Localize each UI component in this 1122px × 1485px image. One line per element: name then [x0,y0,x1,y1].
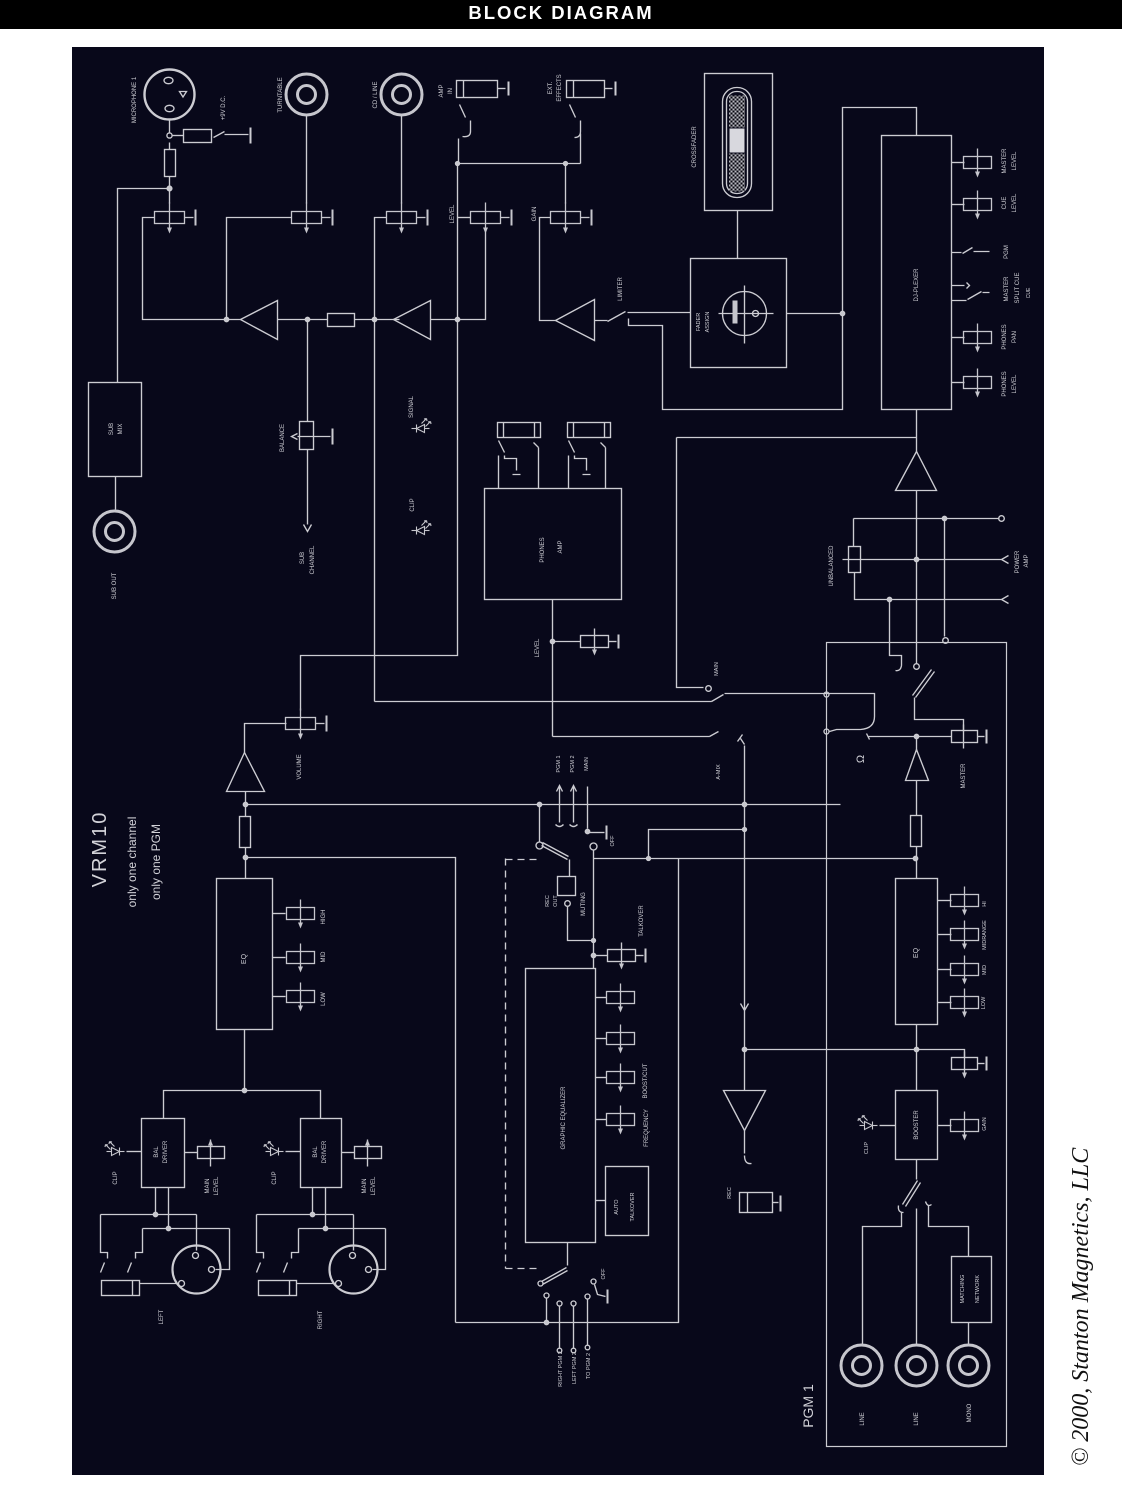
wire rec bus horizontal [594,858,916,860]
svg-text:PGM 1: PGM 1 [556,755,562,772]
svg-text:LEVEL: LEVEL [1012,151,1018,170]
svg-text:CUE: CUE [1002,197,1008,210]
svg-text:MICROPHONE 1: MICROPHONE 1 [132,76,138,123]
resistor R2 [165,143,176,187]
svg-text:MAIN: MAIN [584,757,590,771]
potentiometer VR11 main level [185,1140,225,1167]
node [243,802,247,806]
wire [944,519,946,637]
wire rec tap [745,1050,965,1058]
svg-text:PGM: PGM [1004,245,1010,259]
svg-text:Ω: Ω [855,755,867,763]
wire to pgm1 [725,694,875,732]
svg-text:only one channel: only one channel [125,817,139,908]
wire to aux box [118,189,170,383]
jack J5 ext effects [567,81,616,164]
op-amp A2 [394,301,431,340]
potentiometer VR7 volume [286,709,327,740]
svg-text:OUT: OUT [553,895,559,907]
node [167,186,172,191]
wire [245,848,247,879]
svg-text:SPLIT CUE: SPLIT CUE [1015,273,1021,304]
wire [968,1323,970,1345]
resistor R4 [240,817,251,848]
svg-text:BOOST/CUT: BOOST/CUT [643,1063,649,1098]
svg-text:HI: HI [982,901,988,907]
wire [565,164,567,204]
wire wraparound [246,858,456,1323]
potentiometer VR10 low [273,996,286,998]
svg-text:LEVEL: LEVEL [535,638,541,657]
aux box SUB MIX [89,383,142,477]
svg-text:EFFECTS: EFFECTS [557,74,563,101]
svg-text:LOW: LOW [981,996,987,1009]
switch S8 lever [913,670,935,698]
svg-text:ASSIGN: ASSIGN [705,312,711,333]
wire [354,1215,386,1270]
svg-text:GAIN: GAIN [982,1117,988,1130]
svg-text:LEVEL: LEVEL [371,1176,377,1195]
LED D3 clip [105,1142,125,1156]
wires driver out [156,1188,169,1229]
svg-text:RIGHT: RIGHT [318,1310,324,1329]
svg-text:MASTER: MASTER [961,763,967,789]
potentiometer VR5 gain [551,203,592,234]
pgm eq box [896,879,938,1025]
LED D1 signal [412,419,432,433]
switch S6 pgm [952,248,990,254]
contacts [544,1293,590,1306]
wire [890,602,902,671]
wire monitor feed [677,437,917,439]
contact hook [745,1131,752,1164]
off contact [590,843,597,850]
dj-plexer box [882,136,952,410]
wire [916,1025,918,1091]
svg-text:IN: IN [448,88,454,94]
potentiometer VR25 midrange [938,934,952,936]
svg-text:TO PGM 2: TO PGM 2 [586,1353,592,1379]
svg-text:POWER: POWER [1015,550,1021,573]
wire effects loop [458,163,581,165]
svg-text:SIGNAL: SIGNAL [409,395,415,418]
svg-text:DRIVER: DRIVER [163,1140,169,1163]
node [914,1047,918,1051]
rotary assign symbol [719,286,774,344]
node [914,734,918,738]
svg-text:SUB OUT: SUB OUT [112,572,118,599]
XLR out right [330,1246,378,1294]
contact [565,901,571,907]
wire monitor tap [677,438,704,688]
wire rec bus [593,851,595,969]
switch S7 split cue [952,283,990,301]
wire pfl bus [246,804,841,806]
svg-text:EQ: EQ [913,947,920,958]
potentiometer VR19 master level [952,162,965,164]
wire pgm line select [375,701,712,703]
wire [143,1229,230,1249]
stub pgm2 left [573,1307,575,1349]
jack out right [257,1249,336,1296]
wire [227,218,292,320]
main out L [843,556,1009,564]
svg-text:LINE: LINE [860,1412,866,1425]
svg-text:PGM 2: PGM 2 [570,755,576,772]
wire rec amp feed [741,832,749,1091]
wire [915,698,964,732]
switch S3 lever [536,842,569,860]
RCA out mono [948,1345,989,1386]
svg-text:MAIN: MAIN [714,662,720,676]
svg-text:CD / LINE: CD / LINE [373,81,379,108]
rec mute box [558,860,576,896]
wire [787,313,843,315]
wire [737,211,739,259]
potentiometer VR18 [596,1119,607,1121]
phones jack 1 [498,423,541,489]
svg-text:REC: REC [545,895,551,907]
wire bypass [629,108,917,410]
potentiometer VR13 cue level [553,641,581,643]
potentiometer VR12 main level [342,1140,382,1167]
wire [299,1229,386,1249]
node [840,311,844,315]
svg-text:only one PGM: only one PGM [149,824,163,900]
svg-text:CROSSFADER: CROSSFADER [692,126,698,168]
node [455,317,459,321]
assign box [691,259,787,368]
svg-text:VRM10: VRM10 [89,811,111,888]
RCA phono input J2 [286,74,327,115]
potentiometer VR15 [596,997,607,999]
svg-text:CLIP: CLIP [410,498,416,511]
wires driver out [313,1188,326,1229]
stub pgm2 [587,1300,589,1346]
XLR mic connector J1 [145,70,195,120]
svg-text:SUB: SUB [300,552,306,564]
copyright [1068,1124,1108,1466]
wire [245,724,287,753]
wire [355,319,400,321]
switch S2 assign [595,312,691,322]
potentiometer VR4 level [471,203,512,234]
svg-text:OFF: OFF [601,1268,607,1280]
svg-text:EXT.: EXT. [548,81,554,94]
node [372,317,376,321]
svg-text:CHANNEL: CHANNEL [310,545,316,574]
potentiometer VR27 low [938,1002,952,1004]
crossfader assembly [705,74,773,211]
svg-text:TALKOVER: TALKOVER [630,1193,636,1222]
contact hook [738,735,745,745]
svg-text:BALANCE: BALANCE [280,424,286,452]
wire [457,164,459,320]
svg-text:MIX: MIX [118,424,124,435]
potentiometer VR23 master [867,725,987,749]
svg-text:PHONES: PHONES [1002,371,1008,396]
node [243,855,247,859]
contact [706,686,712,692]
svg-text:OFF: OFF [610,835,616,847]
wire sub send [304,450,312,532]
svg-text:GRAPHIC EQUALIZER: GRAPHIC EQUALIZER [561,1086,567,1150]
potentiometer VR26 mid [938,969,952,971]
svg-text:BAL: BAL [313,1146,319,1158]
wire [278,319,328,321]
title banner [0,0,1122,29]
svg-text:CLIP: CLIP [272,1171,278,1184]
potentiometer VR3 line level [387,203,428,234]
node [913,856,917,860]
RCA line input J3 [381,74,422,115]
svg-text:LEVEL: LEVEL [1012,374,1018,393]
node [305,317,309,321]
wire a-mix line [553,732,719,737]
svg-text:LIMITER: LIMITER [618,277,624,301]
wire line bus [375,218,387,702]
node [742,802,746,806]
svg-text:AMP: AMP [558,540,564,553]
wire [244,1030,246,1091]
potentiometer VR16 [596,1038,607,1040]
potentiometer VR6 balance [292,422,333,450]
potentiometer VR14 talkover [594,955,608,957]
wire [101,1215,197,1249]
switch S5 [712,695,724,702]
LED D4 clip [264,1142,284,1156]
wire [245,792,247,817]
off terminal 2 [591,1279,608,1304]
wire [401,116,403,204]
graphic equalizer box [526,969,596,1243]
jack out left [101,1249,179,1296]
potentiometer VR29 gain [938,1125,952,1127]
contact [943,638,949,644]
node [550,639,554,643]
main out upper [854,519,1000,547]
op-amp A8 [906,739,929,781]
wire [916,491,918,664]
wire [169,191,171,204]
wire [552,600,554,737]
svg-text:VOLUME: VOLUME [297,754,303,779]
svg-text:SUB: SUB [109,423,115,435]
resistor R1 [184,130,212,143]
switch S4 lever [538,1243,568,1287]
LED D2 clip [412,521,432,535]
wire [916,410,918,452]
op-amp A4 [896,452,937,491]
resistor R6 [911,816,922,847]
svg-text:LEFT: LEFT [159,1309,165,1324]
RCA out line R [896,1345,937,1386]
svg-text:CLIP: CLIP [113,1171,119,1184]
wire [127,1151,142,1153]
potentiometer VR17 [596,1077,607,1079]
node [242,1088,246,1092]
off terminal [590,832,605,834]
pgm1 box [827,643,1007,1447]
balanced driver box left [142,1119,185,1188]
svg-text:+9V D.C.: +9V D.C. [221,95,227,120]
main out R [855,573,1009,604]
wire [863,1213,902,1345]
wire [916,781,918,816]
svg-text:MASTER: MASTER [1002,148,1008,174]
svg-text:MAIN: MAIN [205,1179,211,1194]
balanced driver box right [301,1119,342,1188]
terminal +9V [250,128,252,144]
svg-text:TURNTABLE: TURNTABLE [278,77,284,112]
contact [914,664,920,670]
phones amp box [485,489,622,600]
stub pgm2 right [559,1307,561,1349]
svg-text:EQ: EQ [241,953,248,964]
wire [143,218,241,320]
svg-text:MID: MID [982,965,988,975]
auto talkover box [596,1167,649,1236]
potentiometer VR1 mic level [155,203,196,234]
RCA out line L [841,1345,882,1386]
wire [306,116,308,204]
svg-text:CLIP: CLIP [864,1142,870,1155]
potentiometer VR2 phono level [292,203,333,234]
wire [169,120,171,133]
svg-text:BOOSTER: BOOSTER [914,1110,920,1140]
svg-text:PHONES: PHONES [1002,324,1008,349]
op-amp A7 [724,1091,766,1131]
svg-text:PGM 1: PGM 1 [800,1384,816,1428]
wire [197,1215,230,1270]
svg-text:MAIN: MAIN [362,1179,368,1194]
svg-text:FREQUENCY: FREQUENCY [644,1109,650,1147]
booster box [896,1091,938,1160]
wire [539,805,541,842]
XLR out left [173,1246,221,1294]
wire [546,1298,548,1323]
potentiometer VR28 [952,1052,987,1079]
svg-text:TALKOVER: TALKOVER [639,905,645,937]
wire [257,1215,354,1249]
switch S1 phantom [214,132,249,138]
wire [431,319,458,321]
svg-text:LINE: LINE [914,1412,920,1425]
wire output tee [164,1091,321,1119]
svg-text:LEVEL: LEVEL [214,1176,220,1195]
potentiometer VR9 mid [273,957,286,959]
svg-text:LEFT PGM 2: LEFT PGM 2 [572,1352,578,1384]
svg-text:MUTING: MUTING [581,892,587,916]
svg-text:MASTER: MASTER [1004,276,1010,302]
svg-text:FADER: FADER [696,313,702,331]
svg-text:AUTO: AUTO [614,1199,620,1215]
svg-text:CUE: CUE [1026,287,1032,298]
op-amp A3 [556,300,595,341]
potentiometer VR24 hi [938,900,952,902]
svg-text:GAIN: GAIN [532,207,538,222]
wire [929,1206,969,1257]
op-amp A5 [227,753,265,792]
wire [458,217,471,219]
LED D5 clip [858,1116,878,1130]
potentiometer VR21 phones pan [952,337,965,339]
svg-text:LEVEL: LEVEL [1012,193,1018,212]
wire main bus down [301,320,458,711]
svg-text:REC: REC [727,1187,733,1199]
svg-text:MATCHING: MATCHING [960,1275,966,1304]
svg-text:HIGH: HIGH [321,910,327,925]
wire [173,135,184,137]
svg-text:DRIVER: DRIVER [322,1140,328,1163]
svg-text:PAN: PAN [1012,331,1018,343]
wire [540,218,556,321]
svg-text:BAL: BAL [154,1146,160,1158]
selector S3 labels arrows [556,786,590,834]
wire [916,847,918,879]
node [167,133,172,138]
wire [880,1125,896,1127]
op-amp A1 [241,301,278,340]
wire [115,477,117,510]
svg-text:LOW: LOW [321,992,327,1006]
wire [916,1209,918,1345]
svg-text:NETWORK: NETWORK [975,1275,981,1303]
svg-text:LEVEL: LEVEL [450,204,456,223]
wire dogleg [649,746,745,859]
potentiometer VR8 high [273,913,286,915]
jack J4 amp in [457,81,509,164]
svg-text:A-MIX: A-MIX [716,764,722,780]
svg-text:PHONES: PHONES [540,537,546,562]
wire bottom bus [456,859,679,1323]
matching network box [952,1257,992,1323]
svg-text:DJ-PLEXER: DJ-PLEXER [914,268,920,302]
svg-text:MONO: MONO [967,1403,973,1422]
resistor R5 unbalanced [849,547,861,573]
wire [458,231,486,320]
resistor R3 [328,314,355,327]
wire [286,1151,301,1153]
potentiometer VR20 cue level [952,204,965,206]
svg-text:AMP: AMP [1024,554,1030,567]
wire [568,907,595,941]
jack rec out [740,1193,781,1213]
svg-text:UNBALANCED: UNBALANCED [829,545,835,587]
svg-text:MID: MID [321,951,327,963]
svg-text:AMP: AMP [439,84,445,97]
svg-text:RIGHT PGM 2: RIGHT PGM 2 [558,1351,564,1387]
wire balance feed [307,320,309,422]
channel EQ box [217,879,273,1030]
RCA jack sub out [94,511,135,552]
phones jack 2 [568,423,611,489]
potentiometer VR22 phones level [952,382,965,384]
svg-text:MIDRANGE: MIDRANGE [982,920,988,950]
switch S9 lever [898,1160,931,1213]
node [224,317,228,321]
dashed enclosure [506,859,542,1269]
